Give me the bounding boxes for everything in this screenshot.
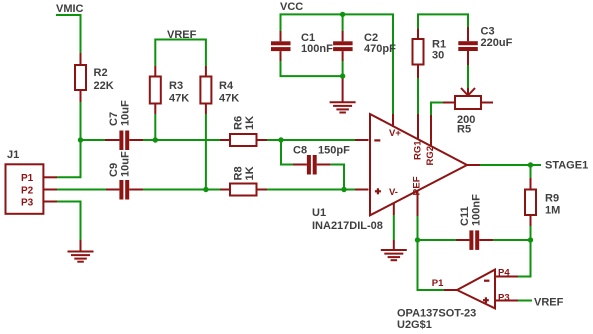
svg-text:V+: V+	[389, 128, 401, 139]
ground below J1	[68, 240, 94, 262]
wire R1 down	[417, 78, 419, 114]
pin R5 left	[443, 102, 455, 104]
wire VREF rail	[155, 40, 206, 67]
capacitor C2	[333, 31, 353, 61]
svg-text:1K: 1K	[244, 166, 256, 180]
wire C11 node down to P4	[518, 240, 531, 277]
op-amp U2 minus sign	[484, 280, 489, 282]
op-amp U1 minus sign	[374, 139, 380, 141]
wire R3 to node	[154, 114, 156, 140]
resistor R1	[413, 39, 424, 65]
svg-text:P3: P3	[21, 198, 34, 209]
wire R5 left down	[431, 103, 443, 116]
wire P3 to VREF	[518, 300, 532, 302]
wire P2 to C9	[57, 189, 106, 191]
svg-text:P1: P1	[432, 278, 444, 289]
resistor R4	[200, 77, 211, 104]
op-amp U2 plus sign	[483, 297, 489, 303]
pin U1 V+	[392, 114, 394, 127]
wire V- to ground	[393, 215, 395, 240]
wire minus row right	[267, 139, 355, 141]
resistor R3 value	[169, 80, 189, 105]
op-amp U2	[457, 270, 495, 309]
pin U1 plus input	[355, 189, 369, 191]
resistor R1 pins	[417, 29, 419, 79]
junction node R3 row	[153, 137, 158, 142]
capacitor C7	[105, 131, 143, 151]
svg-text:10uF: 10uF	[120, 100, 132, 126]
svg-text:100nF: 100nF	[301, 43, 333, 55]
resistor R6	[230, 134, 257, 146]
resistor R9	[525, 190, 536, 216]
wire VMIC rail	[56, 15, 81, 53]
svg-text:OPA137SOT-23: OPA137SOT-23	[397, 308, 476, 320]
capacitor C9 value	[108, 151, 132, 177]
junction node C8 plus row	[341, 187, 346, 192]
wire P3 down	[57, 202, 81, 241]
junction node REF C11 P1	[415, 237, 420, 242]
capacitor C3	[458, 27, 478, 65]
potentiometer R5	[455, 96, 481, 109]
wire output to STAGE1	[480, 164, 541, 166]
resistor R8 value	[233, 166, 257, 180]
junction node STAGE1 R9	[528, 162, 533, 167]
wire minus row left	[81, 139, 106, 141]
svg-text:P3: P3	[498, 292, 510, 303]
svg-text:STAGE1: STAGE1	[545, 160, 588, 172]
pin J1 P1	[43, 176, 57, 178]
svg-text:150pF: 150pF	[318, 145, 350, 157]
resistor R1 value	[432, 39, 446, 62]
wire C11 node down to P1 loop	[418, 240, 445, 290]
resistor R9 value	[545, 193, 560, 217]
pin U1 V- down	[393, 203, 395, 215]
svg-text:VCC: VCC	[280, 1, 303, 13]
svg-text:P1: P1	[21, 173, 34, 184]
resistor R9 pins	[530, 178, 532, 226]
svg-text:C8: C8	[293, 145, 307, 157]
svg-text:C7: C7	[108, 112, 120, 126]
svg-text:R9: R9	[545, 193, 559, 205]
resistor R4 value	[219, 80, 239, 105]
wire C3 to wiper	[467, 65, 469, 88]
connector J1 pin names	[21, 173, 34, 208]
svg-text:470pF: 470pF	[364, 43, 396, 55]
svg-text:R6: R6	[233, 116, 245, 130]
pin J1 P2	[43, 189, 57, 191]
svg-text:U1: U1	[312, 207, 326, 219]
svg-text:R4: R4	[219, 80, 234, 92]
resistor R8	[230, 184, 257, 196]
capacitor C1	[271, 31, 291, 61]
svg-text:RG2: RG2	[425, 146, 436, 166]
pin U2 P1	[444, 289, 457, 291]
junction node R9 C11 P4	[528, 237, 533, 242]
junction node R2 C7 P1	[78, 137, 83, 142]
ground below C2	[330, 76, 356, 112]
wire STAGE1 node down	[530, 165, 532, 178]
resistor R4 pins	[205, 66, 207, 114]
op-amp U1 name	[312, 207, 383, 232]
svg-text:U2G$1: U2G$1	[397, 319, 432, 331]
junction node C1 C2 gnd	[340, 73, 345, 78]
junction node R4 plus row	[203, 187, 208, 192]
capacitor C9	[106, 180, 143, 200]
svg-text:1M: 1M	[545, 205, 560, 217]
capacitor C2 value	[364, 32, 396, 55]
svg-text:RG1: RG1	[413, 140, 424, 160]
resistor R3	[150, 77, 161, 104]
wire C2 top	[342, 14, 344, 31]
op-amp U2 name	[397, 308, 476, 332]
capacitor C7 value	[108, 100, 132, 126]
wire C11 row left	[418, 239, 457, 241]
svg-text:220uF: 220uF	[481, 37, 513, 49]
wire C8 branch right	[331, 165, 344, 190]
wire R1 C3 top rail	[418, 14, 468, 28]
capacitor C8	[293, 155, 331, 175]
svg-text:P4: P4	[498, 268, 510, 279]
potentiometer R5 value	[457, 114, 475, 136]
pin U1 REF down	[417, 191, 419, 216]
wire REF to C11 node	[417, 216, 419, 240]
svg-text:C9: C9	[108, 163, 120, 177]
junction node C8 minus row	[278, 137, 283, 142]
pin J1 P3	[43, 201, 57, 203]
resistor R2	[75, 65, 86, 90]
svg-text:10uF: 10uF	[120, 151, 132, 177]
capacitor C3 value	[481, 26, 513, 50]
pin U1 RG1	[417, 114, 419, 140]
wire P1 up to node	[57, 140, 81, 177]
svg-text:47K: 47K	[169, 93, 189, 105]
svg-text:22K: 22K	[94, 80, 114, 92]
resistor R2 value	[94, 67, 114, 92]
svg-text:R2: R2	[94, 67, 108, 79]
svg-text:C3: C3	[481, 26, 495, 38]
wire C2 bottom	[342, 61, 344, 76]
svg-text:VMIC: VMIC	[56, 3, 84, 15]
junction node VCC C2	[340, 12, 345, 17]
wire R2 to node	[80, 102, 82, 140]
svg-text:R5: R5	[457, 124, 471, 136]
op-amp U1	[370, 114, 467, 215]
pin U1 minus input	[355, 139, 369, 141]
wire C8 branch left	[281, 140, 293, 165]
resistor R6 value	[233, 116, 257, 130]
svg-text:100nF: 100nF	[471, 194, 483, 226]
connector J1	[6, 164, 44, 214]
svg-text:J1: J1	[7, 149, 19, 161]
capacitor C11	[456, 230, 493, 250]
wire R4 down crossing row to plus row	[205, 114, 207, 190]
capacitor C8 value	[293, 145, 350, 157]
resistor R6 pins	[220, 139, 267, 141]
svg-text:VREF: VREF	[534, 297, 564, 309]
pin U1 output	[467, 164, 480, 166]
svg-text:R8: R8	[233, 166, 245, 180]
svg-text:R3: R3	[169, 80, 183, 92]
svg-text:47K: 47K	[219, 93, 239, 105]
wire plus row mid	[143, 189, 220, 191]
wire minus row mid	[143, 139, 220, 141]
resistor R3 pins	[154, 66, 156, 114]
svg-text:INA217DIL-08: INA217DIL-08	[312, 220, 383, 232]
wire VCC rail	[281, 14, 394, 114]
svg-text:P2: P2	[21, 186, 34, 197]
svg-text:30: 30	[432, 50, 444, 62]
resistor R8 pins	[220, 189, 267, 191]
svg-text:V-: V-	[389, 187, 398, 198]
pin U1 RG2	[430, 115, 432, 147]
resistor R2 pins	[80, 53, 82, 102]
capacitor C1 value	[301, 32, 333, 55]
op-amp U1 plus sign	[375, 188, 381, 194]
pin R5 right stub	[481, 102, 493, 104]
potentiometer R5 wiper arrow	[461, 88, 475, 96]
wire plus row right	[267, 189, 355, 191]
svg-text:1K: 1K	[244, 116, 256, 130]
capacitor C11 value	[459, 194, 483, 226]
pin U2 P3	[495, 300, 518, 302]
pin U2 P4	[495, 276, 518, 278]
wire C1 bottom	[281, 61, 343, 76]
wire R9 down to C11 node	[530, 226, 532, 240]
ground below U1	[381, 240, 407, 260]
svg-text:C11: C11	[459, 206, 471, 226]
wire C11 row right	[493, 239, 531, 241]
